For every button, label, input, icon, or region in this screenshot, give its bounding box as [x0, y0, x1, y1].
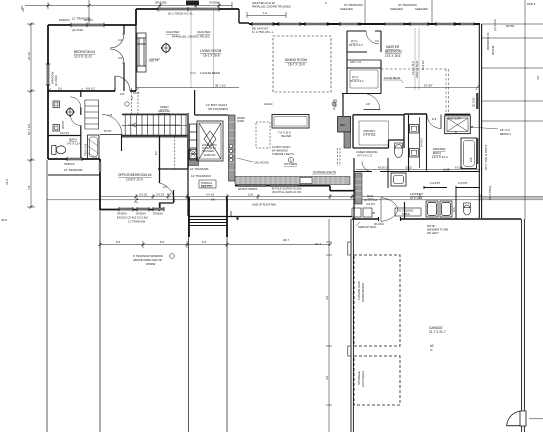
kitchen sink	[300, 178, 312, 184]
toilet wc	[463, 205, 470, 215]
closet dashed under stairs	[174, 136, 176, 169]
svg-text:FURR DN: FURR DN	[204, 154, 215, 157]
wic1 walls	[347, 31, 381, 94]
transom window note	[133, 254, 163, 266]
sconce lights label	[312, 173, 336, 175]
svg-text:13-8 X 12-4: 13-8 X 12-4	[126, 178, 143, 182]
svg-text:5-2: 5-2	[116, 240, 121, 244]
wall: stair west stub	[121, 135, 123, 152]
windows office south	[119, 208, 164, 211]
mud lockers hatched	[355, 173, 362, 204]
vaulted clg note top	[252, 1, 328, 9]
wall: kitchen north	[195, 90, 228, 115]
svg-text:(3) 2X18: (3) 2X18	[72, 28, 83, 32]
svg-text:2-8: 2-8	[120, 92, 124, 96]
svg-text:1-0: 1-0	[263, 11, 267, 15]
svg-text:PARALLEL CHORD TRUSSES: PARALLEL CHORD TRUSSES	[252, 5, 291, 9]
wall: house left	[47, 25, 49, 159]
double door mud-garage fan arcs	[381, 198, 398, 222]
svg-text:3-4 1/2: 3-4 1/2	[156, 193, 165, 197]
wall mud/laundry divider	[404, 202, 406, 219]
porch corner X post	[189, 150, 197, 159]
svg-text:12' TRANSOM: 12' TRANSOM	[128, 220, 145, 224]
svg-text:2-6: 2-6	[118, 38, 122, 42]
svg-text:12-2 X 12-4: 12-2 X 12-4	[432, 155, 448, 159]
svg-text:5-6 X 12-0: 5-6 X 12-0	[67, 142, 81, 146]
living south dim	[136, 87, 239, 89]
svg-text:(4) 1.75X18 2X1 V.L.: (4) 1.75X18 2X1 V.L.	[168, 12, 194, 16]
svg-text:3-6 3/4: 3-6 3/4	[366, 202, 375, 206]
svg-text:MASTER: MASTER	[386, 45, 400, 49]
cooktop circles	[229, 144, 232, 161]
svg-text:LINE OF ROOF ABV.: LINE OF ROOF ABV.	[252, 203, 277, 207]
svg-text:CEILING: CEILING	[158, 109, 171, 113]
linen cabinet	[85, 100, 99, 129]
svg-text:24-10: 24-10	[27, 52, 31, 60]
bottom dim row of house	[100, 196, 543, 198]
wall: stair east	[187, 113, 189, 169]
wall: office se step	[160, 190, 174, 210]
garage storage dashed box 2	[354, 356, 400, 405]
svg-text:2-8: 2-8	[366, 102, 370, 106]
ceiling break lines	[191, 10, 214, 88]
svg-text:3-4 1/2: 3-4 1/2	[206, 193, 215, 197]
wic2 walls	[342, 60, 381, 94]
svg-text:SP30XX: SP30XX	[64, 162, 75, 166]
top dimension line	[31, 0, 232, 24]
wall: office east	[159, 136, 161, 211]
svg-text:2X6: 2X6	[470, 157, 473, 162]
svg-text:A5 50 1/2: A5 50 1/2	[378, 167, 389, 170]
svg-text:6-8: 6-8	[155, 151, 158, 155]
svg-text:±6.58°: ±6.58°	[443, 169, 450, 172]
svg-text:3-4 1/2: 3-4 1/2	[139, 193, 148, 197]
svg-text:20-7: 20-7	[283, 238, 289, 242]
porch column posts thick	[189, 197, 227, 237]
window bedroom top	[71, 24, 104, 27]
svg-text:05 16 X 5-4: 05 16 X 5-4	[350, 79, 364, 83]
niche cabinet west of X-box	[190, 124, 197, 160]
svg-text:W.I.C.: W.I.C.	[352, 75, 359, 79]
svg-text:30-0: 30-0	[1, 218, 7, 222]
laundry label	[410, 192, 423, 200]
svg-text:FALSE BEAM: FALSE BEAM	[384, 76, 400, 80]
stair top/bottom rails thick	[122, 114, 187, 137]
dim ticks on south wall	[48, 88, 116, 91]
svg-text:10 X 13-3: 10 X 13-3	[410, 196, 423, 200]
svg-text:SP16X9: SP16X9	[153, 212, 163, 216]
svg-text:11-8: 11-8	[248, 193, 254, 197]
pocket door walls	[424, 186, 480, 189]
svg-text:174 X 15 6: 174 X 15 6	[385, 54, 401, 58]
hall dashed pair	[338, 148, 341, 166]
top dim text row	[155, 1, 536, 6]
hall door arc by stairs	[102, 115, 122, 135]
wall: garage top	[352, 218, 521, 220]
svg-text:TH/ROPE LIGHTS: TH/ROPE LIGHTS	[272, 152, 294, 156]
svg-text:5-0: 5-0	[131, 96, 134, 100]
hall door arc below stairs	[188, 150, 198, 160]
room label master bath	[432, 147, 448, 159]
svg-text:VANITY: VANITY	[62, 120, 65, 129]
svg-text:(3) 2X10: (3) 2X10	[493, 19, 497, 31]
fireplace symbol	[161, 43, 171, 53]
vault break lines master	[415, 28, 419, 90]
tall cabinet hatched strip	[229, 115, 236, 181]
svg-text:20-6 PNAL: 20-6 PNAL	[488, 185, 492, 200]
line: porch column east	[226, 196, 228, 432]
garage storage dashed box 1	[354, 255, 400, 346]
svg-text:ROOM: ROOM	[491, 45, 495, 55]
box vault label	[206, 103, 228, 111]
garage label	[429, 326, 446, 352]
svg-text:CHL HOOD: CHL HOOD	[254, 161, 269, 165]
svg-text:18-0C: 18-0C	[133, 92, 140, 95]
stair arrow	[128, 123, 180, 127]
svg-text:12' TRANSOM: 12' TRANSOM	[191, 174, 211, 178]
wall: bath north	[48, 135, 81, 137]
door office east + arc	[160, 183, 175, 202]
vanity rotated label	[60, 120, 69, 135]
svg-text:ISLAND: ISLAND	[281, 134, 291, 138]
svg-text:4-0: 4-0	[536, 75, 540, 80]
svg-text:3Y2000: 3Y2000	[209, 1, 220, 5]
svg-text:TRUSSES: TRUSSES	[202, 150, 214, 153]
wall: office/porch divider	[158, 168, 188, 170]
svg-text:5-2: 5-2	[202, 240, 207, 244]
wic1 door arc	[366, 31, 379, 44]
cased co label	[350, 60, 362, 64]
svg-text:1-FALSE BEAM: 1-FALSE BEAM	[200, 71, 221, 75]
garage left wall notches	[348, 242, 351, 255]
wall: hall west of ref	[342, 94, 344, 117]
closet double doors + arcs	[110, 34, 124, 48]
svg-text:WINDOW #1: WINDOW #1	[486, 32, 490, 50]
line: porch column west	[188, 216, 190, 432]
tub	[88, 135, 100, 159]
door bedroom + arc	[115, 76, 130, 91]
windows east wing top wall	[252, 23, 474, 26]
wc room wall	[455, 186, 457, 219]
built-in media wall left	[137, 33, 146, 72]
svg-text:VAULTED: VAULTED	[166, 30, 180, 34]
washer dryer boxes	[426, 201, 452, 217]
kitchen counter south hatched	[235, 177, 350, 185]
top right extension lines	[365, 0, 432, 24]
wall: living room top (raised)	[136, 9, 239, 25]
REF box	[338, 117, 351, 133]
12 transom center	[190, 167, 209, 171]
wall: east wing top	[249, 23, 480, 25]
svg-text:OVEN: OVEN	[237, 120, 244, 123]
hall light circle	[288, 157, 293, 162]
folding table box	[395, 208, 421, 216]
svg-text:32 1/2: 32 1/2	[405, 167, 413, 170]
attic access X-box	[197, 121, 223, 161]
svg-text:20-7: 20-7	[315, 242, 321, 246]
svg-text:16-7 X 13-0: 16-7 X 13-0	[288, 63, 305, 67]
powder shower pan	[391, 173, 406, 186]
island	[272, 115, 309, 129]
mud label	[364, 194, 378, 206]
wall: mud west	[353, 158, 355, 219]
svg-text:W.C.: W.C.	[453, 206, 456, 212]
dining dashed ceiling box	[273, 36, 331, 92]
wall: step down to east wing	[239, 9, 249, 24]
window office west wall	[99, 162, 101, 172]
svg-text:FBRG TUB: FBRG TUB	[85, 144, 88, 156]
svg-text:12' TRANSOM: 12' TRANSOM	[190, 167, 209, 171]
svg-text:SP16X9: SP16X9	[117, 212, 127, 216]
dining east rotated note	[332, 99, 336, 110]
svg-text:WNDW: WNDW	[146, 262, 156, 266]
svg-text:9'1 3/4″: 9'1 3/4″	[424, 84, 433, 88]
toilet mbath	[394, 145, 402, 158]
svg-text:10-7 1/2: 10-7 1/2	[27, 124, 31, 135]
ceiling fan diamond	[66, 108, 75, 117]
wall: bedroom closet divider	[124, 25, 136, 91]
svg-text:ON LEFT: ON LEFT	[427, 231, 439, 235]
svg-text:WORK BENCH: WORK BENCH	[361, 283, 365, 302]
vaulted labels	[166, 30, 211, 39]
right side extension lines	[481, 0, 543, 419]
svg-text:12-3 X 11-11: 12-3 X 11-11	[74, 55, 92, 59]
svg-text:12' TRANSOM: 12' TRANSOM	[64, 168, 83, 172]
svg-text:4-6: 4-6	[325, 375, 329, 380]
porch front steps	[190, 220, 227, 226]
chl hood label + leader	[237, 158, 253, 162]
box vault rope lights note	[272, 145, 294, 156]
svg-text:SHELVES: SHELVES	[340, 7, 353, 11]
roof line	[47, 199, 543, 201]
wall: house right (double)	[479, 24, 481, 218]
open-below dashed rails	[132, 88, 139, 114]
svg-text:1/2 BOX VAULT: 1/2 BOX VAULT	[272, 145, 291, 149]
room label dining	[285, 58, 307, 67]
shower mbath	[445, 114, 471, 133]
wall: office west	[99, 159, 101, 210]
door garage rear + arc	[520, 411, 526, 426]
svg-text:10-6 1/2: 10-6 1/2	[421, 60, 425, 70]
svg-text:PAR 4: PAR 4	[527, 2, 536, 6]
svg-text:EX2X10 CO #10 CO 2 #10: EX2X10 CO #10 CO 2 #10	[117, 216, 149, 220]
svg-text:PARALLEL CHORD TRUSS: PARALLEL CHORD TRUSS	[172, 35, 210, 39]
svg-text:BEDROOM #3: BEDROOM #3	[74, 50, 95, 54]
svg-text:D: D	[290, 159, 292, 163]
bold sheet label P160	[186, 1, 199, 6]
mbath south wall	[388, 171, 480, 173]
window mullion ticks dining	[252, 22, 328, 26]
svg-text:6-8 1/2: 6-8 1/2	[86, 87, 95, 91]
svg-text:(3) 2X10: (3) 2X10	[473, 97, 476, 107]
step leader arrow	[231, 211, 239, 220]
shiplap wall note	[356, 222, 360, 226]
dim row mud	[356, 169, 480, 171]
svg-text:BENCH: BENCH	[500, 132, 511, 136]
mbath west wall	[409, 115, 427, 172]
wall: office bottom	[100, 209, 160, 211]
svg-text:(IN TRUSSES): (IN TRUSSES)	[208, 107, 228, 111]
svg-text:7-8: 7-8	[27, 185, 31, 190]
room label bath	[67, 138, 81, 146]
svg-text:8X8 PST: 8X8 PST	[201, 185, 213, 189]
garage left dim line	[326, 219, 332, 432]
svg-text:SP 2180: SP 2180	[155, 1, 167, 5]
svg-text:BEDROOM: BEDROOM	[385, 50, 402, 54]
pantry hall door arc	[364, 109, 381, 111]
pantry walls	[353, 115, 404, 148]
line: office wall extended	[99, 210, 101, 432]
svg-text:SP20XX: SP20XX	[59, 18, 70, 22]
svg-text:SHELVES: SHELVES	[390, 7, 403, 11]
island dashed counter overhang	[256, 122, 270, 148]
wall: porch west	[187, 134, 189, 216]
door master to bath arc	[427, 115, 441, 129]
svg-text:SCONCE LIGHTS: SCONCE LIGHTS	[313, 170, 336, 174]
svg-text:21-7 X 21-7: 21-7 X 21-7	[429, 330, 446, 334]
svg-text:16-0 3/4: 16-0 3/4	[60, 132, 69, 135]
door arc hall-to-vanity	[70, 97, 81, 108]
room label bedroom3	[74, 50, 95, 59]
porch label box	[199, 180, 216, 188]
svg-text:TILE SURR: TILE SURR	[448, 118, 461, 121]
svg-text:24 SHLF: 24 SHLF	[421, 137, 424, 147]
svg-text:VAULTED: VAULTED	[197, 30, 211, 34]
svg-text:16X4 SHELF: 16X4 SHELF	[361, 370, 365, 387]
mud bath walls	[354, 158, 388, 188]
door arc vanity-to-bath	[71, 115, 81, 125]
kitchen label	[284, 162, 297, 166]
small dim line 1-0	[247, 12, 286, 18]
svg-text:NOTE: NOTE	[506, 24, 514, 28]
svg-text:DN: DN	[211, 198, 215, 202]
svg-text:CASED OPENING: CASED OPENING	[356, 150, 378, 154]
svg-text:2-0: 2-0	[167, 192, 171, 196]
svg-text:(3) 2X10: (3) 2X10	[374, 222, 385, 226]
window band kitchen south	[238, 184, 298, 187]
wall: porch south	[189, 216, 352, 218]
svg-text:SP20XX SP20XX: SP20XX SP20XX	[238, 188, 258, 191]
svg-text:ELE FP: ELE FP	[149, 59, 159, 63]
svg-text:6-5 3/4: 6-5 3/4	[455, 167, 463, 170]
svg-text:2-4 PKT.: 2-4 PKT.	[458, 181, 468, 185]
wall: garage left (double)	[351, 219, 353, 432]
small boxes at garage top	[352, 208, 361, 217]
window master top ticks	[340, 22, 455, 26]
porch post hatched base	[189, 160, 199, 166]
wall: bath east	[80, 91, 82, 159]
svg-text:3-0: 3-0	[21, 7, 25, 12]
svg-text:05 16 X 5-0: 05 16 X 5-0	[349, 43, 363, 47]
svg-text:OFFICE/BEDROOM #4: OFFICE/BEDROOM #4	[118, 173, 152, 177]
svg-text:SP16X: SP16X	[84, 18, 93, 22]
hall south wall	[48, 174, 100, 176]
svg-text:2-6: 2-6	[375, 39, 379, 43]
bench leader	[470, 126, 498, 129]
window right wall master	[476, 93, 478, 164]
room label living	[200, 49, 222, 58]
svg-text:16-1 X 16-6: 16-1 X 16-6	[203, 54, 220, 58]
hatched strip below ref	[344, 132, 351, 148]
window bedroom left wall	[47, 64, 50, 85]
svg-text:SP16X9: SP16X9	[136, 212, 146, 216]
left vertical dimension line	[22, 6, 35, 208]
top right transom note	[340, 3, 428, 11]
svg-text:5-2: 5-2	[58, 87, 62, 91]
open ceiling label	[158, 105, 171, 113]
toilet bath	[52, 146, 56, 155]
wall cabinet boxes on left wall	[53, 101, 60, 131]
room label pantry	[363, 129, 376, 137]
wall: kitchen south	[235, 186, 355, 191]
svg-text:14'7 9'-0 C.O.: 14'7 9'-0 C.O.	[357, 154, 373, 158]
false beam label master	[384, 76, 400, 80]
false beam label living	[200, 71, 221, 75]
svg-text:6 | 1.75X1.25 L.L.: 6 | 1.75X1.25 L.L.	[252, 30, 274, 34]
wall: bedroom top	[48, 24, 136, 26]
svg-text:W/ HANGING: W/ HANGING	[272, 149, 288, 153]
svg-text:34-6: 34-6	[5, 179, 9, 185]
svg-text:4-6: 4-6	[325, 295, 329, 300]
svg-text:38' 1 1/2: 38' 1 1/2	[215, 84, 226, 88]
svg-text:SHELVES: SHELVES	[415, 7, 428, 11]
align text	[264, 102, 272, 106]
svg-text:DINING ROOM: DINING ROOM	[285, 58, 307, 62]
svg-text:W.I.C.: W.I.C.	[351, 39, 358, 43]
svg-text:STV. TOP & PAN 8: STV. TOP & PAN 8	[484, 144, 488, 170]
svg-text:(D) 16'8 GL SLDR LO 20'1: (D) 16'8 GL SLDR LO 20'1	[272, 191, 302, 194]
svg-text:LIVING ROOM: LIVING ROOM	[200, 49, 222, 53]
svg-text:24'6" C.O.: 24'6" C.O.	[350, 60, 362, 64]
stairs treads	[122, 115, 187, 135]
note washer	[427, 224, 448, 235]
svg-text:2+4 PKT.: 2+4 PKT.	[430, 181, 441, 185]
svg-text:TABLE: TABLE	[402, 213, 410, 216]
svg-text:14-4 X 16-8: 14-4 X 16-8	[411, 61, 415, 75]
svg-text:REF: REF	[340, 123, 346, 127]
sliding door labels	[238, 188, 302, 194]
wall: bath bottom	[48, 158, 100, 160]
wall: garage right (double)	[522, 219, 525, 432]
svg-text:ALIGN: ALIGN	[264, 102, 272, 106]
wall: bedroom south	[48, 90, 136, 92]
svg-text:D: D	[455, 131, 457, 134]
tub mbath	[461, 138, 477, 169]
line: west roof line	[46, 160, 48, 432]
svg-text:J-B: J-B	[371, 211, 375, 215]
svg-text:7-7 X 5-6: 7-7 X 5-6	[363, 133, 376, 137]
vanity column boxes	[410, 117, 420, 168]
master south wall	[404, 113, 427, 115]
dim line above master wall	[405, 85, 479, 90]
dashed clg line master	[381, 68, 446, 70]
svg-text:(2) 2X10: (2) 2X10	[54, 75, 58, 86]
svg-text:2-6: 2-6	[163, 185, 167, 189]
ceiling fan mark office	[134, 198, 139, 203]
dashed clg verticals master	[446, 69, 449, 113]
window living top	[158, 8, 219, 11]
svg-text:D-6: D-6	[432, 117, 437, 121]
dim row lower	[100, 241, 330, 248]
svg-text:5-2: 5-2	[160, 240, 165, 244]
ele fp label	[150, 58, 160, 60]
svg-text:⊙: ⊙	[430, 348, 433, 352]
door arc mud hall	[362, 162, 372, 172]
svg-text:2-6: 2-6	[118, 56, 122, 60]
cased opening label	[356, 150, 378, 158]
window bath bottom	[67, 158, 82, 161]
svg-text:PO NT: PO NT	[104, 130, 112, 133]
